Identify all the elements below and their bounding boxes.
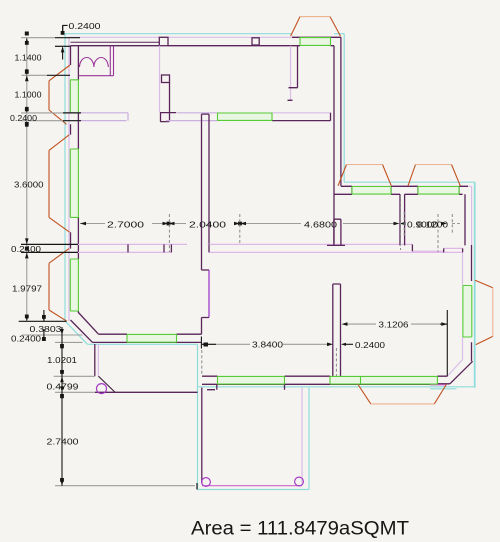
svg-text:1.9797: 1.9797 (12, 283, 42, 293)
annex top band inner face (334, 186, 468, 194)
svg-text:3.8400: 3.8400 (252, 340, 283, 350)
svg-text:2.7000: 2.7000 (107, 219, 144, 229)
roof outline cyan top (65, 34, 344, 183)
svg-text:0.2400: 0.2400 (11, 244, 41, 254)
dim text 0.4799 (47, 381, 79, 391)
roof outline cyan annex top (344, 182, 475, 387)
dim column left vertical (26, 38, 28, 322)
dim row 3.1206 (344, 310, 447, 376)
dim column x43.9 (43, 310, 45, 341)
wing interior wall (288, 46, 298, 101)
annex top band outer face (341, 185, 472, 187)
flue square in top wall (252, 38, 259, 45)
svg-text:Area = 111.8479aSQMT: Area = 111.8479aSQMT (191, 519, 409, 540)
dim lines y113/121 (21, 113, 81, 121)
dim line y335 (22, 334, 83, 336)
svg-text:0.2400: 0.2400 (355, 340, 385, 350)
bay window top (trapezoid) (291, 17, 341, 36)
bottom wall of left room (93, 334, 202, 342)
left wall outer face (68, 37, 70, 321)
dim extension dashes row y223.5 (169, 196, 452, 252)
area label (191, 519, 409, 540)
bay window bottom (trapezoid) (358, 385, 446, 404)
svg-text:0.4799: 0.4799 (47, 381, 79, 391)
porch left wall (201, 388, 203, 483)
svg-text:0.3803: 0.3803 (30, 324, 62, 334)
annex interior wall (400, 194, 465, 245)
dim text 3.1206 (379, 320, 409, 330)
window east (463, 286, 472, 338)
wall band y113-121 right part (272, 113, 331, 121)
dim line y75.3 (22, 74, 71, 76)
central wall band jambs (128, 244, 463, 252)
door column circle (97, 384, 107, 394)
dim text 1.9797 (12, 283, 42, 293)
porch column SW (202, 478, 211, 487)
bay window left 2 (49, 135, 70, 232)
wall band y113-121 left part (66, 113, 218, 121)
bay window left 3 (49, 249, 69, 322)
dim line y485.7 (55, 483, 197, 490)
svg-text:1.0201: 1.0201 (47, 355, 77, 365)
window bottom W1 (218, 376, 285, 384)
dim row y223.5 arrows (80, 222, 447, 226)
closet box room A (78, 46, 113, 76)
dim arrows x62 lower (60, 329, 64, 486)
svg-text:0.2400: 0.2400 (10, 113, 37, 123)
left chamfer corner walls (71, 313, 99, 343)
dim text 0.2400 band (11, 334, 41, 344)
dim line y342.4 (55, 341, 83, 343)
dim row y223.5 line (80, 223, 462, 225)
lower wall x333-340 (333, 284, 341, 376)
dim text 0.3803 (30, 324, 62, 334)
dim text 1.1400 (15, 53, 42, 63)
porch bottom edge (202, 485, 302, 487)
dim lines y244/252 (21, 244, 78, 252)
main block right wall (334, 37, 341, 244)
roof outline cyan left (65, 34, 198, 345)
svg-text:0.2400: 0.2400 (11, 334, 41, 344)
wall top band outer face (69, 36, 342, 38)
dim line y46.3 (55, 45, 70, 47)
dim text 0.2400 wall (10, 113, 37, 123)
dim text 4.6800 (304, 219, 337, 229)
wall top band inner face (70, 45, 334, 47)
dim column x26.8 arrows (25, 31, 65, 321)
bay window left 1 (49, 65, 70, 124)
dim line y321.3 (19, 320, 67, 322)
dim row 3.84/0.24 (201, 337, 353, 377)
bay window annex A (trapezoid) (338, 165, 391, 186)
window bottom W2 (330, 376, 437, 384)
window left 1 (70, 80, 78, 113)
dim text 3.6000 (14, 179, 44, 189)
porch right wall (301, 388, 303, 483)
dim text 1.1000 (15, 89, 42, 99)
dim text 2.7000 (107, 219, 144, 229)
roof outline cyan porch (198, 344, 310, 489)
room A right wall (160, 46, 177, 122)
door swing entry (98, 376, 115, 392)
wall pier right of hall (327, 219, 345, 245)
dim line y37.7 (21, 37, 80, 39)
dim text 0.2400 central (11, 244, 41, 254)
svg-text:3.1206: 3.1206 (379, 320, 409, 330)
annex window A (352, 186, 391, 194)
window in left room bottom wall (127, 334, 177, 342)
shelf line room A (71, 41, 160, 43)
bay window east (475, 280, 493, 344)
column box in top wall (159, 37, 168, 45)
dim text 2.7400 (47, 437, 79, 447)
dim text 3.8400 (252, 340, 283, 350)
window left 2 (70, 149, 78, 217)
door jamb wall left (95, 344, 99, 376)
roof outline cyan bottom (198, 387, 475, 389)
dim text 1.0201 (47, 355, 77, 365)
left wall face segments dark (71, 46, 79, 313)
dim text 0.2400 top (69, 21, 101, 31)
central wall band bottom face (74, 251, 462, 253)
dim text 2.0400 (189, 219, 226, 229)
svg-text:0.2400: 0.2400 (69, 21, 101, 31)
svg-text:2.0400: 2.0400 (189, 219, 226, 229)
window left 3 (70, 259, 78, 311)
svg-text:0.1200: 0.1200 (417, 220, 448, 230)
bottom wall band inner face (202, 376, 448, 390)
svg-text:2.7400: 2.7400 (47, 437, 79, 447)
svg-text:1.1400: 1.1400 (15, 53, 42, 63)
dim line y392.3 (55, 391, 95, 393)
dim line y376.3 (54, 375, 95, 377)
porch column SE (295, 477, 304, 486)
central wall band top face (74, 244, 462, 251)
dim column x62 lower (61, 327, 63, 486)
closet squiggle (80, 57, 109, 67)
dim text overlapped 0.9000/0.1200 (407, 220, 448, 230)
svg-text:1.1000: 1.1000 (15, 89, 42, 99)
dim text 0.2400 wall2 (355, 340, 385, 350)
dim row 3.84/0.24 arrows (204, 343, 347, 347)
bottom wall band outer face (202, 384, 450, 385)
dim column x62.6 top (63, 25, 68, 59)
dim arrows x43.9 (42, 315, 46, 341)
window in band y113-121 (218, 113, 273, 121)
svg-text:3.6000: 3.6000 (14, 179, 44, 189)
annex right wall (463, 186, 472, 361)
bay window annex B (trapezoid) (408, 165, 460, 186)
annex window B (418, 186, 459, 194)
bottom-right chamfer walls (448, 359, 473, 384)
window W-top wing (300, 37, 331, 45)
door threshold (95, 391, 198, 393)
svg-text:4.6800: 4.6800 (304, 219, 337, 229)
dim row 3.1206 arrows (342, 322, 448, 326)
interior wall center vertical (202, 114, 210, 334)
